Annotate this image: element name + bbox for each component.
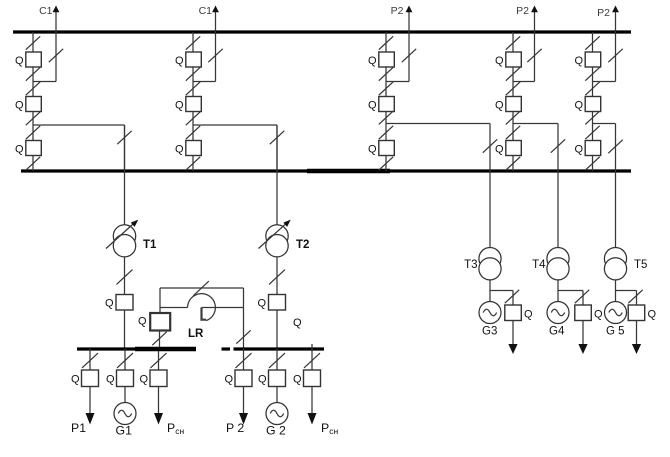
breaker Q feeder Psn-2 (293, 370, 321, 387)
breaker Q bridge (left) (138, 313, 170, 331)
disconnector slash above Q2 bay 4 (506, 82, 520, 95)
svg-text:Q: Q (368, 55, 377, 67)
disconnector slash above Q3 bay 4 (506, 126, 520, 139)
disconnector QS bay 2 (bus-A side slash) (186, 36, 200, 49)
wire: bay 1 main column (busbar A to busbar B) (32, 32, 34, 171)
disconnector slash below T2 (269, 270, 285, 285)
wire: transformer jumper bay 1 (33, 125, 125, 171)
disconnector slash below Q3 bay 4 (bus-B side) (506, 157, 520, 170)
line feeder C1 bay 1 (arrow up) (39, 5, 59, 82)
transformer T3 (unit transformer) (464, 248, 501, 280)
disconnector slash feeder G1 (117, 353, 133, 368)
svg-text:Q: Q (15, 144, 24, 156)
svg-text:G 2: G 2 (266, 424, 286, 438)
wire: feeder Psn-2 drop (stub above bus) (311, 344, 313, 370)
svg-text:Q: Q (175, 55, 184, 67)
disconnector slash below Q3 bay 1 (bus-B side) (26, 157, 40, 170)
disconnector slash on transformer jumper bay 3 (483, 139, 497, 152)
wire: bypass link (top of bridge) (160, 287, 244, 289)
disconnector slash below Q1 bay 2 (186, 67, 200, 80)
svg-text:Q: Q (293, 317, 302, 329)
wire: bridge right vertical (243, 288, 245, 349)
disconnector slash feeder G 2 (269, 353, 285, 368)
svg-text:P1: P1 (71, 421, 86, 435)
breaker Q auxiliary T5 (628, 305, 656, 321)
wire: bay 2 main column (busbar A to busbar B) (192, 32, 194, 171)
svg-text:T5: T5 (634, 259, 647, 271)
disconnector slash above Q2 bay 3 (379, 82, 393, 95)
disconnector slash on transformer jumper bay 5 (608, 140, 622, 153)
disconnector slash above Q3 bay 5 (585, 126, 599, 139)
wire: T5 LV lead to generator (615, 280, 617, 302)
breaker Q3 bay 2 (175, 141, 201, 156)
disconnector slash on feeder line bay 1 (49, 49, 63, 62)
breaker Q auxiliary T3 (505, 305, 533, 321)
disconnector slash on transformer jumper bay 4 (551, 139, 565, 152)
disconnector slash above Q2 bay 1 (26, 82, 40, 95)
svg-text:Q: Q (15, 100, 24, 112)
disconnector slash on auxiliary branch T3 (505, 290, 519, 303)
disconnector slash below Q3 bay 3 (bus-B side) (379, 157, 393, 170)
disconnector QS bay 1 (bus-A side slash) (26, 36, 40, 49)
disconnector slash below Q2 bay 2 (186, 112, 200, 125)
disconnector slash below Q1 bay 5 (585, 67, 599, 80)
svg-text:Q: Q (574, 100, 583, 112)
breaker Q3 bay 1 (15, 141, 41, 156)
wire: T3 LV lead to generator (489, 280, 491, 302)
disconnector slash feeder P 2 (236, 353, 252, 368)
svg-text:C1: C1 (39, 5, 53, 17)
wire: junction to line feeder bay 2 (193, 81, 216, 83)
svg-text:Q: Q (368, 100, 377, 112)
breaker Q auxiliary T4 (575, 305, 603, 321)
wire: transformer jumper bay 3 (386, 124, 490, 172)
auxiliary load arrow below T4 (578, 321, 587, 355)
wire: junction to line feeder bay 4 (513, 81, 535, 83)
svg-text:Q: Q (105, 298, 114, 310)
wire: reactor branch left lead (160, 307, 188, 309)
breaker Q feeder G1 (106, 370, 134, 387)
wire: auxiliary branch from T3 (490, 291, 513, 306)
line feeder P2 bay 5 (arrow up) (597, 6, 619, 82)
wire: auxiliary branch from T5 (616, 291, 637, 306)
disconnector slash feeder P1 (82, 353, 98, 368)
disconnector QS bay 3 (bus-A side slash) (379, 36, 393, 49)
disconnector slash below Q1 bay 1 (26, 67, 40, 80)
wire: T4 HV lead (from jumper through busbar B) (557, 171, 559, 248)
breaker Q feeder G 2 (258, 370, 286, 387)
disconnector slash above Q3 bay 1 (26, 126, 40, 139)
svg-text:G1: G1 (116, 424, 133, 438)
wire: feeder G1 drop (124, 349, 126, 371)
svg-text:T1: T1 (143, 239, 157, 251)
disconnector slash below Q2 bay 4 (506, 111, 520, 124)
wire: feeder G 2 drop (276, 349, 278, 371)
transformer T1 (two-winding, on-load regulation) (106, 220, 157, 257)
svg-text:Q: Q (175, 100, 184, 112)
breaker Q below T2 (257, 295, 285, 311)
breaker Q2 bay 5 (574, 97, 600, 112)
breaker Q below T1 (105, 295, 133, 311)
svg-text:G3: G3 (482, 326, 497, 338)
line feeder C1 bay 2 (arrow up) (199, 5, 219, 82)
wire: bay 3 main column (busbar A to busbar B) (385, 32, 387, 171)
breaker Q2 bay 2 (175, 97, 201, 112)
disconnector slash above Q3 bay 2 (186, 126, 200, 139)
wire: transformer jumper bay 4 (513, 124, 558, 172)
wire: T3 HV lead (from jumper through busbar B) (489, 171, 491, 248)
disconnector slash on transformer jumper bay 1 (117, 131, 131, 144)
svg-text:Q: Q (257, 298, 266, 310)
transformer T5 (unit transformer) (604, 248, 647, 280)
wire: feeder Psn-1 drop (158, 351, 160, 370)
svg-text:Q: Q (71, 374, 80, 386)
breaker Q feeder P1 (71, 370, 99, 387)
wire: bay 5 main column (busbar A to busbar B) (592, 32, 594, 171)
svg-text:Q: Q (495, 55, 504, 67)
wire: junction to line feeder bay 5 (593, 81, 616, 83)
svg-text:Q: Q (594, 309, 603, 321)
svg-text:Q: Q (574, 55, 583, 67)
line feeder P2 bay 4 (arrow up) (516, 5, 538, 82)
load arrow P1 (71, 387, 95, 436)
generator G1 (114, 387, 136, 438)
disconnector slash below Q3 bay 2 (bus-B side) (186, 157, 200, 170)
disconnector slash on feeder line bay 5 (608, 49, 622, 62)
disconnector slash on transformer jumper bay 2 (270, 131, 284, 144)
breaker Q1 bay 5 (574, 52, 600, 67)
disconnector slash on auxiliary branch T4 (575, 290, 589, 303)
svg-text:Q: Q (258, 374, 267, 386)
disconnector slash below Q2 bay 3 (379, 111, 393, 124)
wire: feeder P1 drop (89, 349, 91, 371)
breaker Q3 bay 5 (574, 141, 600, 156)
auxiliary load arrow below T5 (632, 321, 641, 355)
wire: T1 to generator busbar (124, 310, 126, 349)
svg-text:LR: LR (188, 328, 204, 340)
disconnector slash above Q3 bay 3 (379, 126, 393, 139)
disconnector slash on feeder line bay 3 (402, 49, 416, 62)
breaker Q3 bay 3 (368, 141, 394, 156)
disconnector slash on bypass link (193, 281, 209, 296)
wire: junction to line feeder bay 1 (33, 81, 56, 83)
disconnector slash on auxiliary branch T5 (628, 290, 642, 303)
disconnector slash on feeder line bay 2 (208, 49, 222, 62)
disconnector slash below Q2 bay 1 (26, 112, 40, 125)
wire: T4 LV lead to generator (557, 280, 559, 302)
busbar A (upper HV bus) (13, 30, 631, 33)
svg-text:Q: Q (495, 144, 504, 156)
auxiliary load arrow below T3 (508, 321, 517, 355)
disconnector slash below bridge breaker (152, 332, 166, 345)
transformer T4 (unit transformer) (532, 248, 569, 280)
svg-text:Q: Q (139, 374, 148, 386)
svg-text:Q: Q (106, 374, 115, 386)
svg-text:Q: Q (574, 144, 583, 156)
disconnector slash feeder Psn-1 (151, 353, 167, 368)
wire: auxiliary branch from T4 (558, 291, 583, 306)
generator G4 (547, 302, 569, 338)
svg-text:G 5: G 5 (606, 326, 625, 338)
auxiliary load arrow Psn section 2 (308, 387, 339, 437)
svg-text:C1: C1 (199, 5, 213, 17)
wire: T1 LV lead (124, 257, 126, 295)
wire: feeder P 2 drop (243, 349, 245, 371)
svg-text:Q: Q (293, 374, 302, 386)
generator busbar section 1 (77, 347, 196, 350)
breaker Q1 bay 4 (495, 52, 521, 67)
wire: transformer jumper bay 5 (593, 124, 616, 172)
breaker Q1 bay 3 (368, 52, 394, 67)
breaker Q1 bay 1 (15, 52, 41, 67)
breaker Q2 bay 3 (368, 97, 394, 112)
load arrow P 2 (226, 387, 248, 436)
reactor LR (188, 294, 216, 340)
disconnector slash below T1 (117, 270, 133, 285)
wire: T2 LV lead (276, 257, 278, 295)
wire: T2 HV lead (jumper to transformer) (276, 125, 278, 225)
disconnector QS bay 5 (bus-A side slash) (585, 36, 599, 49)
disconnector slash below Q2 bay 5 (585, 111, 599, 124)
svg-text:P2: P2 (597, 7, 610, 19)
wire: junction to line feeder bay 3 (386, 81, 409, 83)
breaker Q feeder P 2 (224, 370, 252, 387)
transformer T2 (two-winding, on-load regulation) (259, 220, 310, 257)
generator G5 (605, 302, 627, 338)
svg-text:P2: P2 (391, 5, 404, 17)
svg-text:Q: Q (368, 144, 377, 156)
disconnector slash above Q2 bay 5 (585, 82, 599, 95)
breaker Q1 bay 2 (175, 52, 201, 67)
line feeder P2 bay 3 (arrow up) (391, 5, 413, 82)
svg-text:P 2: P 2 (226, 421, 244, 435)
generator G2 (266, 387, 288, 438)
breaker Q2 bay 1 (15, 97, 41, 112)
disconnector slash below Q3 bay 5 (bus-B side) (585, 157, 599, 170)
wire: T1 HV lead (jumper to transformer) (124, 125, 126, 225)
svg-text:G4: G4 (549, 326, 565, 338)
disconnector slash feeder Psn-2 (304, 353, 320, 368)
disconnector slash on bridge right vertical (label Q) (236, 317, 302, 344)
wire: T2 to generator busbar (276, 310, 278, 349)
auxiliary load arrow Psn section 1 (154, 387, 184, 437)
svg-text:T4: T4 (532, 259, 546, 271)
svg-text:T2: T2 (296, 239, 309, 251)
generator busbar section 2 (222, 347, 325, 350)
wire: transformer jumper bay 2 (193, 125, 277, 171)
breaker Q feeder Psn-1 (139, 370, 167, 387)
svg-text:P2: P2 (516, 5, 529, 17)
breaker Q2 bay 4 (495, 97, 521, 112)
disconnector slash below Q1 bay 4 (506, 67, 520, 80)
disconnector QS bay 4 (bus-A side slash) (506, 36, 520, 49)
svg-text:Q: Q (524, 309, 533, 321)
disconnector slash above Q2 bay 2 (186, 82, 200, 95)
svg-text:Q: Q (648, 309, 657, 321)
disconnector slash on feeder line bay 4 (527, 49, 541, 62)
svg-text:Q: Q (495, 100, 504, 112)
svg-text:Q: Q (224, 374, 233, 386)
svg-text:Q: Q (138, 316, 147, 328)
svg-text:T3: T3 (464, 259, 477, 271)
svg-text:Q: Q (175, 144, 184, 156)
wire: T5 HV lead (from jumper through busbar B) (615, 171, 617, 248)
busbar B (lower HV bus) (21, 169, 631, 172)
wire: bay 4 main column (busbar A to busbar B) (512, 32, 514, 171)
breaker Q3 bay 4 (495, 141, 521, 156)
generator G3 (479, 302, 501, 338)
wire: bridge left drop to busbar (159, 331, 161, 349)
wire: bridge left vertical (159, 288, 161, 313)
svg-text:Q: Q (15, 55, 24, 67)
wire: reactor branch right lead (202, 307, 244, 309)
disconnector slash below Q1 bay 3 (379, 67, 393, 80)
